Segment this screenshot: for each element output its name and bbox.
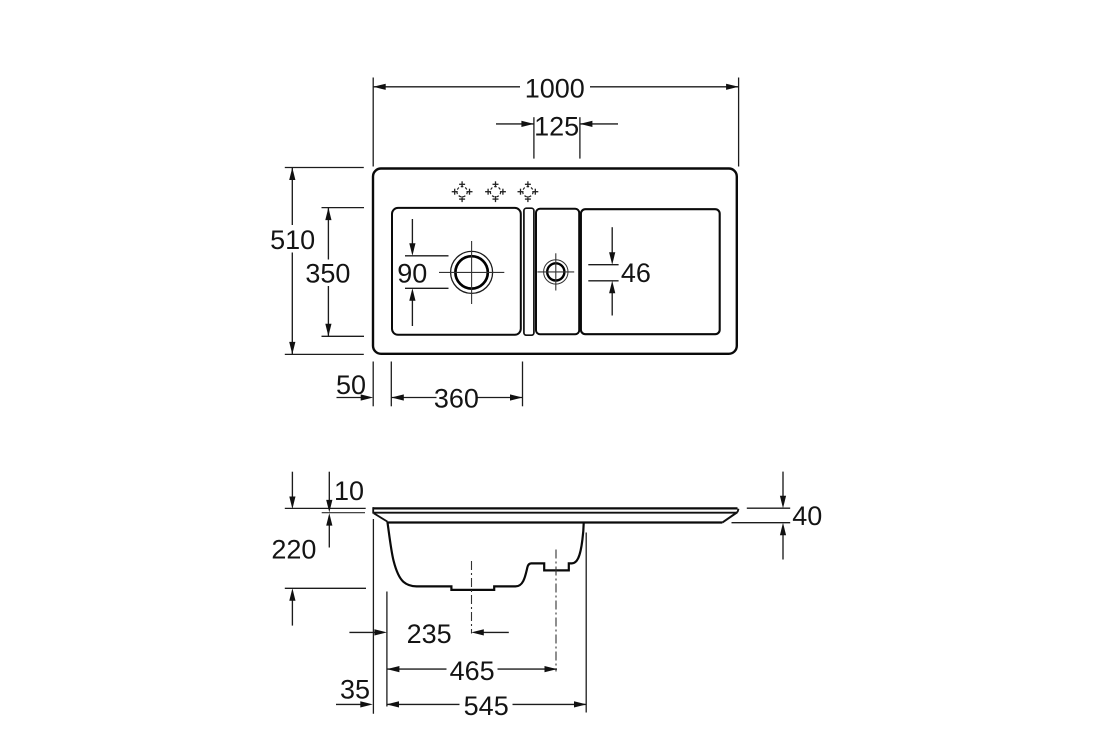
svg-text:90: 90 <box>397 259 427 289</box>
svg-text:510: 510 <box>270 225 315 255</box>
svg-text:10: 10 <box>334 476 364 506</box>
section: mid underside line <box>374 512 737 514</box>
big drain circle <box>451 251 493 293</box>
dimension 350 <box>305 208 364 337</box>
section: small drain centerline <box>555 550 557 672</box>
dimension 40 <box>732 472 823 560</box>
svg-text:235: 235 <box>407 619 452 649</box>
svg-text:545: 545 <box>464 691 509 721</box>
svg-text:220: 220 <box>271 534 316 564</box>
svg-text:35: 35 <box>340 674 370 704</box>
svg-text:125: 125 <box>534 111 579 141</box>
section: big drain centerline <box>471 561 473 634</box>
dimension 90 <box>397 219 448 326</box>
section: bowl profile <box>387 522 583 590</box>
dimension 35 <box>336 674 373 707</box>
dimension 360 <box>391 362 522 414</box>
svg-text:50: 50 <box>336 370 366 400</box>
left bowl (top view) <box>392 208 521 335</box>
svg-text:40: 40 <box>792 501 822 531</box>
dimension 125 <box>496 111 618 158</box>
dimension 545 <box>387 691 587 721</box>
big drain crosshair <box>439 241 504 304</box>
dimension 10 <box>285 472 366 548</box>
sink outer rim (top view) <box>373 169 737 354</box>
svg-text:46: 46 <box>621 258 651 288</box>
svg-text:350: 350 <box>305 259 350 289</box>
section: lower ledge line <box>387 521 722 523</box>
small drain circle <box>544 260 568 284</box>
middle small bowl <box>536 209 579 334</box>
extension line: bowl left wall <box>386 592 388 707</box>
svg-text:360: 360 <box>434 384 479 414</box>
section: right rim edge <box>722 509 738 523</box>
drainboard <box>581 209 720 334</box>
dimension 510 <box>270 168 364 355</box>
small drain crosshair <box>537 253 574 290</box>
dimension 235 <box>349 619 508 649</box>
section: counter top line <box>373 507 738 509</box>
section: left rim edge <box>373 507 387 521</box>
dimension 465 <box>387 656 557 686</box>
divider strip <box>524 208 534 335</box>
svg-text:465: 465 <box>450 656 495 686</box>
svg-text:1000: 1000 <box>525 74 585 104</box>
dimension 46 <box>588 227 651 315</box>
tap hole symbol 2 <box>485 181 506 202</box>
dimension 220 <box>271 472 366 626</box>
tap hole symbol 3 <box>518 181 539 202</box>
tap hole symbol 1 <box>452 181 473 202</box>
dimension 50 <box>336 362 373 407</box>
extension line: right 545 <box>585 533 587 713</box>
dimension 1000 <box>373 74 738 167</box>
extension line: sink left edge (bottom view) <box>372 519 374 714</box>
